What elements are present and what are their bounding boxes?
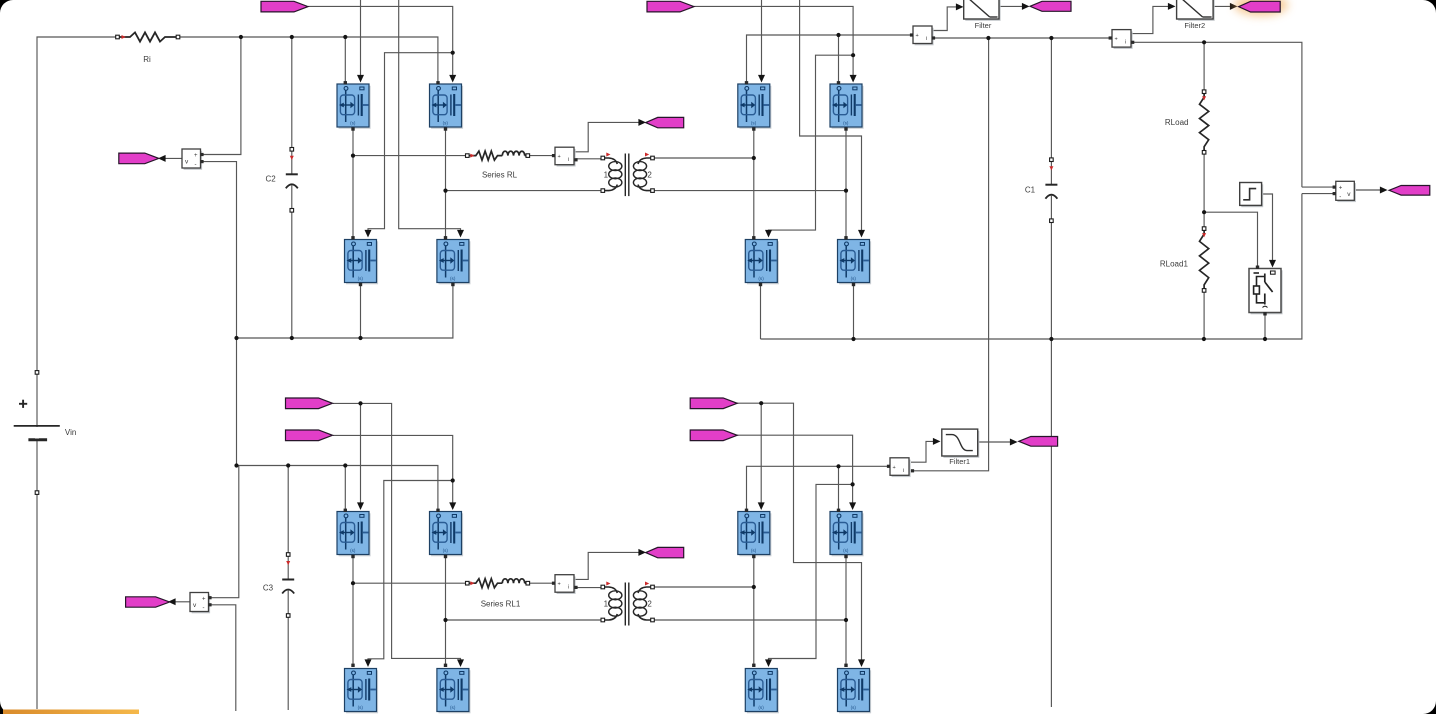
wire: v1 plus to DC bus bbox=[201, 37, 241, 155]
svg-text:1: 1 bbox=[604, 600, 609, 609]
wire: B2 Q2 drain drop bbox=[838, 35, 840, 83]
svg-text:(s): (s) bbox=[758, 276, 764, 281]
wire: B3 Q1 drain drop bbox=[344, 466, 346, 511]
transformer T1 bbox=[601, 153, 654, 197]
junction B3 rail/Q1 bbox=[343, 463, 347, 467]
wire: g5 branch to B4 Q1 gate bbox=[760, 403, 762, 504]
B2 Q7 drain port bbox=[752, 236, 755, 239]
junction midpoint A bbox=[351, 154, 355, 158]
wire: B1 negative rail bbox=[237, 283, 453, 338]
junction B3 rail/column bbox=[234, 463, 238, 467]
capacitor C1 bbox=[1045, 158, 1057, 223]
wire: T1 secondary top to bridge B2 left leg bbox=[653, 157, 754, 159]
wire: goto tag g1 to B1 Q2 gate bbox=[308, 6, 453, 76]
current measurement I1 bbox=[913, 26, 934, 45]
svg-text:+: + bbox=[1115, 37, 1118, 43]
junction rail/breaker bbox=[1263, 337, 1267, 341]
svg-text:(s): (s) bbox=[843, 548, 849, 553]
junction gate g5 branch bbox=[759, 401, 763, 405]
gate arrow B3 Q3 bbox=[365, 659, 372, 667]
svg-text:Vin: Vin bbox=[65, 428, 76, 437]
wire: left source rail from battery top to bus bbox=[37, 37, 118, 709]
voltage source Vin (DC battery) bbox=[14, 371, 60, 495]
junction B2 midpoint B bbox=[844, 189, 848, 193]
B1 Q4 source port bbox=[451, 283, 454, 286]
transistor Q15 (MOSFET block) bbox=[745, 669, 779, 714]
breaker port squares bbox=[1256, 266, 1267, 316]
arrow into tag f1 bbox=[1022, 3, 1030, 10]
wire: Filter output to from-tag f1 bbox=[999, 5, 1023, 7]
wire: branch g4 to B3 Q3 gate bbox=[368, 481, 453, 662]
wire: C2 branch from bus bbox=[291, 37, 293, 149]
svg-text:2: 2 bbox=[647, 171, 652, 180]
gate arrow B2 Q3 bbox=[765, 230, 772, 238]
arrow into tag fv1 bbox=[158, 155, 166, 162]
svg-text:(s): (s) bbox=[443, 121, 449, 126]
junction gate g2 branch bbox=[851, 53, 855, 57]
wire: Filter2 output to from-tag f2 bbox=[1213, 5, 1231, 7]
wire: B4 right leg bbox=[845, 555, 847, 665]
transistor Q13 (MOSFET block) bbox=[738, 512, 772, 557]
wire: v2 output to from-tag fv2 bbox=[1354, 189, 1381, 191]
from tag fv3 (V3 output) bbox=[126, 597, 170, 607]
junction B4 midpoint B bbox=[844, 618, 848, 622]
wire: B1 right leg lower bbox=[445, 191, 447, 238]
svg-text:Filter2: Filter2 bbox=[1184, 21, 1205, 30]
wire: C3 bottom lead down bbox=[287, 616, 289, 711]
junction B2 midpoint A bbox=[752, 156, 756, 160]
svg-text:-: - bbox=[1339, 194, 1341, 200]
arrow into breaker control bbox=[1269, 260, 1276, 268]
B2 Q5 source port bbox=[752, 127, 755, 130]
wire: B1 left leg upper bbox=[352, 128, 354, 156]
svg-text:i: i bbox=[1125, 40, 1126, 46]
wire: B3 right leg lower bbox=[445, 620, 447, 665]
series RL branch Series RL bbox=[466, 151, 530, 160]
video rounded corner bottom-left bbox=[0, 688, 26, 714]
wire: B1 right leg upper bbox=[445, 128, 447, 191]
arrow into tag fv3 bbox=[168, 598, 176, 605]
from tag f1 (Filter output) bbox=[1030, 1, 1071, 11]
svg-text:(s): (s) bbox=[358, 276, 364, 281]
gate arrow B4 Q2 bbox=[849, 502, 856, 510]
gate arrow B2 Q1 bbox=[758, 75, 765, 83]
wire: C1 bottom to negative rail and down to lower net bbox=[1050, 221, 1052, 707]
wire: link negative rail to B3 top rail bbox=[236, 338, 238, 466]
B4 Q14 source port bbox=[844, 555, 847, 558]
current measurement I4 bbox=[555, 147, 576, 166]
junction bus/Q1 bbox=[343, 35, 347, 39]
junction B2 bus/Q2 bbox=[836, 33, 840, 37]
svg-text:+: + bbox=[558, 154, 561, 160]
arrow into Filter bbox=[956, 3, 964, 10]
wire: i2 signal to Filter block bbox=[932, 7, 957, 31]
gate arrow B1 Q2 bbox=[449, 75, 456, 83]
svg-text:1: 1 bbox=[604, 171, 609, 180]
transistor Q11 (MOSFET block) bbox=[345, 669, 379, 714]
wire: B3 left leg lower bbox=[352, 583, 354, 665]
B2 Q8 source port bbox=[852, 283, 855, 286]
video rounded corner top-right bbox=[1410, 0, 1436, 26]
svg-text:+: + bbox=[558, 582, 561, 588]
junction node n1 bbox=[1202, 210, 1206, 214]
resistor RLoad1 bbox=[1160, 227, 1209, 292]
wire: B4 left leg bbox=[753, 555, 755, 665]
wire: C2 bottom to negative rail bbox=[291, 210, 293, 338]
wire: C3 branch from rail bbox=[287, 466, 289, 555]
svg-text:(s): (s) bbox=[751, 121, 757, 126]
junction gate g4 branch bbox=[451, 478, 455, 482]
wire: gate feed to B2 Q4 from top edge bbox=[800, 0, 862, 232]
transistor Q7 (MOSFET block) bbox=[745, 240, 779, 285]
B1 Q4 drain port bbox=[444, 236, 447, 239]
svg-text:Filter1: Filter1 bbox=[949, 457, 970, 466]
wire: branch g1 to B1 Q3 gate bbox=[368, 53, 453, 232]
from tag f2 (Filter2 output) bbox=[1239, 1, 1281, 12]
B1 Q3 source port bbox=[359, 283, 362, 286]
gate arrow B3 Q4 bbox=[457, 659, 464, 667]
junction B4 rail/Q2 bbox=[836, 464, 840, 468]
transistor Q14 (MOSFET block) bbox=[830, 512, 864, 557]
capacitor C3 bbox=[282, 553, 294, 618]
wire: goto tag g3 to B3 gates bbox=[333, 403, 461, 661]
circuit breaker block Breaker bbox=[1249, 269, 1283, 315]
current measurement I3 bbox=[890, 458, 911, 477]
wire: C1 branch from DC bus bbox=[1050, 38, 1052, 160]
wire: T2 primary return bbox=[446, 619, 603, 621]
wire: i1 signal to from-tag fi1 bbox=[574, 122, 641, 151]
B1 Q1 source port bbox=[351, 127, 354, 130]
gate arrow B2 Q2 bbox=[850, 75, 857, 83]
wire: v2 plus stub bbox=[1302, 186, 1336, 188]
B4 Q16 drain port bbox=[844, 664, 847, 667]
B2 Q6 drain port bbox=[837, 81, 840, 84]
junction bus/C2 bbox=[290, 35, 294, 39]
svg-text:i: i bbox=[568, 585, 569, 591]
wire: v3 output to from-tag fv3 bbox=[174, 601, 190, 603]
goto tag g1 (gate signal) bbox=[261, 1, 308, 12]
wire: goto tag g4 to B3 Q2 gate bbox=[333, 435, 453, 504]
arrow into Filter1 bbox=[933, 438, 941, 445]
arrow into tag fi1 bbox=[638, 119, 646, 126]
transistor Q10 (MOSFET block) bbox=[430, 512, 464, 557]
wire: branch g6 to B4 Q3 gate bbox=[769, 484, 853, 661]
orange highlight glow behind tag f2 bbox=[1234, 0, 1288, 16]
arrow into Filter2 bbox=[1168, 3, 1176, 10]
svg-text:(s): (s) bbox=[751, 548, 757, 553]
svg-text:(s): (s) bbox=[851, 276, 857, 281]
svg-text:C3: C3 bbox=[263, 584, 274, 593]
wire: breaker bottom to negative rail bbox=[1264, 313, 1266, 339]
wire: i3 signal to Filter2 block bbox=[1131, 6, 1169, 33]
junction bus/RLoad bbox=[1202, 40, 1206, 44]
gate arrow B1 Q1 bbox=[357, 75, 364, 83]
gate arrow B3 Q1 bbox=[357, 502, 364, 510]
wire: B2 left leg bbox=[753, 128, 755, 238]
from tag f3 (Filter1 output) bbox=[1019, 437, 1058, 447]
B4 Q13 drain port bbox=[745, 509, 748, 512]
svg-text:RLoad: RLoad bbox=[1165, 118, 1189, 127]
svg-text:(s): (s) bbox=[450, 705, 456, 710]
svg-text:C1: C1 bbox=[1025, 186, 1036, 195]
transistor Q12 (MOSFET block) bbox=[437, 669, 471, 714]
wire: Filter1 output to from-tag f3 bbox=[978, 441, 1011, 443]
wire: B1 left leg lower bbox=[352, 156, 354, 238]
goto tag g4 (gate signal) bbox=[286, 430, 333, 441]
transformer T2 bbox=[601, 582, 654, 626]
wire: goto tag g2 to B2 Q2 gate bbox=[694, 6, 854, 76]
wire: goto tag g6 to B4 Q2 gate bbox=[737, 435, 853, 504]
svg-text:Filter: Filter bbox=[975, 21, 992, 30]
wire: midpoint A to Series RL bbox=[353, 155, 467, 157]
wire: i4 signal to from-tag fi2 bbox=[574, 552, 641, 579]
svg-text:RLoad1: RLoad1 bbox=[1160, 260, 1189, 269]
wire: RLoad to node n1 bbox=[1203, 152, 1205, 228]
arrow into tag fv2 bbox=[1380, 187, 1388, 194]
gate arrow B4 Q3 bbox=[765, 659, 772, 667]
junction midpoint B bbox=[443, 189, 447, 193]
wire: T2 secondary top to B4 left leg bbox=[653, 586, 754, 588]
B1 Q2 drain port bbox=[436, 81, 439, 84]
wire: B3 left leg upper bbox=[352, 555, 354, 583]
from tag fi2 (I5 current) bbox=[646, 547, 684, 557]
svg-text:Ri: Ri bbox=[143, 55, 151, 64]
current measurement I5 bbox=[555, 575, 576, 594]
goto tag g6 (gate signal) bbox=[690, 430, 737, 441]
svg-text:-: - bbox=[195, 162, 197, 168]
i/v block port squares bbox=[200, 33, 1335, 606]
from tag fi1 (I4 current) bbox=[646, 117, 684, 127]
wire: g3 branch to B3 Q1 gate bbox=[360, 403, 362, 504]
transistor Q1 (MOSFET block) bbox=[337, 84, 371, 129]
voltage measurement V2 bbox=[1336, 181, 1356, 202]
wire: B1 Q3 source to negative rail bbox=[360, 283, 362, 338]
gate arrow B1 Q3 bbox=[365, 230, 372, 238]
goto tag g2 (gate signal) bbox=[647, 1, 694, 12]
wire: DC bus i2 to i3 measurement bbox=[933, 37, 1110, 39]
B3 Q10 source port bbox=[444, 555, 447, 558]
white gap in battery wire bbox=[35, 427, 39, 439]
wire: v1 minus down to negative rail bbox=[201, 162, 237, 338]
wire: step block to breaker control bbox=[1262, 194, 1273, 262]
junction gate g1 branch bbox=[451, 51, 455, 55]
junction B3 midpoint B bbox=[443, 618, 447, 622]
B1 Q3 drain port bbox=[351, 236, 354, 239]
svg-text:(s): (s) bbox=[350, 121, 356, 126]
svg-text:(s): (s) bbox=[758, 705, 764, 710]
wire: gate feed to B1 Q4 from top edge bbox=[399, 0, 461, 232]
transfer function block Filter bbox=[964, 0, 1001, 21]
transfer function block Filter2 bbox=[1177, 0, 1215, 21]
wire: v2 minus stub bbox=[1302, 193, 1336, 195]
transistor Q5 (MOSFET block) bbox=[738, 84, 772, 129]
wire: B2 Q4 source drop bbox=[853, 283, 855, 339]
wire: Series RL to current sensor i1 bbox=[528, 155, 555, 157]
wire: B2 top DC rail bbox=[747, 35, 914, 83]
from tag fv2 (V2 output) bbox=[1389, 186, 1430, 196]
arrow into tag f2 bbox=[1230, 3, 1238, 10]
B3 Q9 drain port bbox=[344, 509, 347, 512]
transfer function block Filter1 bbox=[942, 429, 980, 458]
svg-text:Series RL1: Series RL1 bbox=[481, 600, 521, 609]
wire: midpoint B3 to Series RL1 bbox=[353, 582, 467, 584]
wire: RLoad1 bottom to negative rail bbox=[1203, 290, 1205, 339]
junction B4 midpoint A bbox=[752, 585, 756, 589]
junction rail/C2 bbox=[290, 336, 294, 340]
wire: gate feed to B1 Q1 from top edge bbox=[360, 0, 362, 77]
wire: v3 minus down bbox=[208, 605, 235, 711]
wire: Series RL1 to current sensor i4 bbox=[528, 582, 555, 584]
video rounded corner top-left bbox=[0, 0, 26, 26]
wire: B4 Q2 drain drop bbox=[838, 466, 840, 510]
junction rail/RLoad1 bbox=[1202, 337, 1206, 341]
transistor Q4 (MOSFET block) bbox=[437, 240, 471, 285]
B2 Q6 source port bbox=[844, 127, 847, 130]
wire: gate feed to B2 Q1 from top edge bbox=[761, 0, 763, 77]
svg-text:(s): (s) bbox=[350, 548, 356, 553]
svg-text:2: 2 bbox=[647, 600, 652, 609]
transistor Q16 (MOSFET block) bbox=[838, 669, 872, 714]
svg-text:Series RL: Series RL bbox=[482, 171, 518, 180]
junction rail/C1 bbox=[1049, 337, 1053, 341]
transistor Q6 (MOSFET block) bbox=[830, 84, 864, 129]
B1 Q1 drain port bbox=[344, 81, 347, 84]
svg-text:(s): (s) bbox=[358, 705, 364, 710]
wire: RLoad branch from bus bbox=[1203, 42, 1205, 91]
wire: node n1 to breaker input bbox=[1204, 212, 1257, 267]
B3 Q11 drain port bbox=[351, 664, 354, 667]
svg-text:(s): (s) bbox=[843, 121, 849, 126]
junction bus/C1 bbox=[1049, 36, 1053, 40]
goto tag g5 (gate signal) bbox=[690, 398, 737, 409]
wire: branch g2 to B2 Q3 gate bbox=[769, 55, 854, 232]
current measurement I2 bbox=[1112, 30, 1133, 49]
wire: v3 plus up to B3 rail bbox=[208, 466, 238, 598]
B1 Q2 source port bbox=[444, 127, 447, 130]
svg-text:C2: C2 bbox=[265, 175, 276, 184]
svg-text:i: i bbox=[568, 157, 569, 163]
junction gate g3 branch bbox=[358, 401, 362, 405]
B2 Q7 source port bbox=[759, 283, 762, 286]
B3 Q9 source port bbox=[351, 555, 354, 558]
wire: i5 signal to Filter1 bbox=[911, 441, 935, 462]
wire: v1 output to from-tag fv1 bbox=[164, 157, 182, 159]
junction gate g6 branch bbox=[851, 482, 855, 486]
wire: T1 secondary bottom to bridge B2 right leg bbox=[653, 190, 847, 192]
arrow into tag fi2 bbox=[638, 549, 646, 556]
svg-text:(s): (s) bbox=[450, 276, 456, 281]
junction bus/v1+ bbox=[239, 35, 243, 39]
junction bus/link bbox=[986, 36, 990, 40]
from tag fv1 (V1 output) bbox=[119, 153, 159, 164]
step source block Step bbox=[1240, 183, 1264, 208]
gate arrow B4 Q1 bbox=[758, 502, 765, 510]
B2 Q5 drain port bbox=[745, 81, 748, 84]
wire: B2 right leg bbox=[845, 128, 847, 238]
transistor Q3 (MOSFET block) bbox=[345, 240, 379, 285]
svg-text:+: + bbox=[194, 153, 198, 159]
svg-text:i: i bbox=[903, 468, 904, 474]
svg-text:-: - bbox=[203, 606, 205, 612]
svg-text:(s): (s) bbox=[443, 548, 449, 553]
wire: right bus upper section bbox=[1133, 42, 1302, 187]
junction B3 midpoint A bbox=[351, 581, 355, 585]
junction rail/B2 Q4 bbox=[851, 337, 855, 341]
arrow into tag f3 bbox=[1010, 439, 1018, 446]
wire: DC bus link to bottom converter output bbox=[912, 38, 989, 471]
wire: B2 Q3 source drop bbox=[760, 283, 762, 339]
wire: shared negative rail right section bbox=[761, 194, 1302, 339]
gate arrow B2 Q4 bbox=[858, 230, 865, 238]
goto tag g3 (gate signal) bbox=[286, 398, 333, 409]
svg-text:+: + bbox=[893, 465, 896, 471]
wire: B1 Q1 drain drop from bus bbox=[344, 37, 346, 83]
resistor RLoad bbox=[1165, 90, 1209, 154]
gate arrow B3 Q2 bbox=[449, 502, 456, 510]
transistor Q9 (MOSFET block) bbox=[337, 512, 371, 557]
svg-text:(s): (s) bbox=[851, 705, 857, 710]
wire: goto tag g5 to B4 gates bbox=[737, 403, 862, 661]
junction rail/Q3 bbox=[358, 336, 362, 340]
voltage measurement V1 bbox=[182, 149, 202, 170]
svg-text:i: i bbox=[926, 36, 927, 42]
series RL branch Series RL1 bbox=[466, 579, 530, 588]
resistor Ri bbox=[116, 32, 180, 41]
gate arrow B4 Q4 bbox=[858, 659, 865, 667]
B2 Q8 drain port bbox=[844, 236, 847, 239]
gate arrow B1 Q4 bbox=[457, 230, 464, 238]
junction rail/v1- bbox=[234, 336, 238, 340]
wire: bottom bridge B3 top rail bbox=[237, 466, 438, 511]
B3 Q10 drain port bbox=[436, 509, 439, 512]
wire: B3 right leg upper bbox=[445, 555, 447, 620]
transistor Q2 (MOSFET block) bbox=[430, 84, 464, 129]
wire: B4 top rail to current sensor i5 bbox=[747, 466, 889, 510]
transistor Q8 (MOSFET block) bbox=[838, 240, 872, 285]
voltage measurement V3 bbox=[190, 593, 210, 614]
junction B3 rail/C3 bbox=[286, 463, 290, 467]
B4 Q13 source port bbox=[752, 555, 755, 558]
svg-text:+: + bbox=[916, 33, 919, 39]
capacitor C2 bbox=[286, 148, 298, 213]
wire: top DC bus of bridge B1 bbox=[178, 37, 438, 83]
B4 Q14 drain port bbox=[837, 509, 840, 512]
wire: i4 electrical out to T2 primary bbox=[575, 587, 603, 589]
B3 Q12 drain port bbox=[444, 664, 447, 667]
svg-text:+: + bbox=[202, 597, 206, 603]
wire: T2 secondary bottom to B4 right leg bbox=[653, 619, 847, 621]
svg-text:+: + bbox=[1339, 185, 1343, 191]
B4 Q15 drain port bbox=[752, 664, 755, 667]
wire: i1 electrical out to T1 primary bbox=[575, 158, 603, 160]
wire: transformer T1 primary return bbox=[446, 190, 603, 192]
video rounded corner bottom-right bbox=[1410, 688, 1436, 714]
